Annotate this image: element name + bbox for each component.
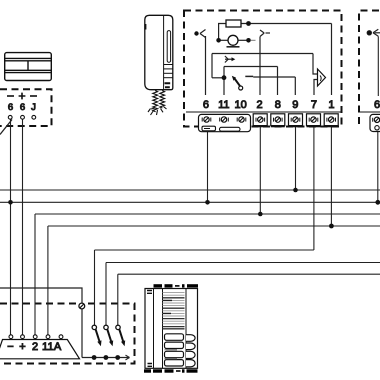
svg-text:6: 6 [374, 99, 380, 111]
svg-text:11: 11 [218, 99, 229, 111]
svg-text:7: 7 [311, 99, 317, 111]
svg-text:2: 2 [32, 341, 38, 353]
svg-text:6: 6 [203, 99, 209, 111]
svg-text:−: − [7, 341, 13, 353]
svg-text:6: 6 [8, 102, 13, 113]
svg-text:2: 2 [257, 99, 263, 111]
svg-text:10: 10 [234, 99, 246, 111]
svg-text:A: A [54, 341, 62, 353]
svg-text:6: 6 [20, 102, 25, 113]
svg-text:9: 9 [292, 99, 298, 111]
svg-text:+: + [19, 341, 25, 353]
svg-text:8: 8 [275, 99, 281, 111]
svg-text:J: J [31, 102, 36, 113]
svg-text:1: 1 [47, 341, 53, 353]
svg-text:1: 1 [328, 99, 334, 111]
